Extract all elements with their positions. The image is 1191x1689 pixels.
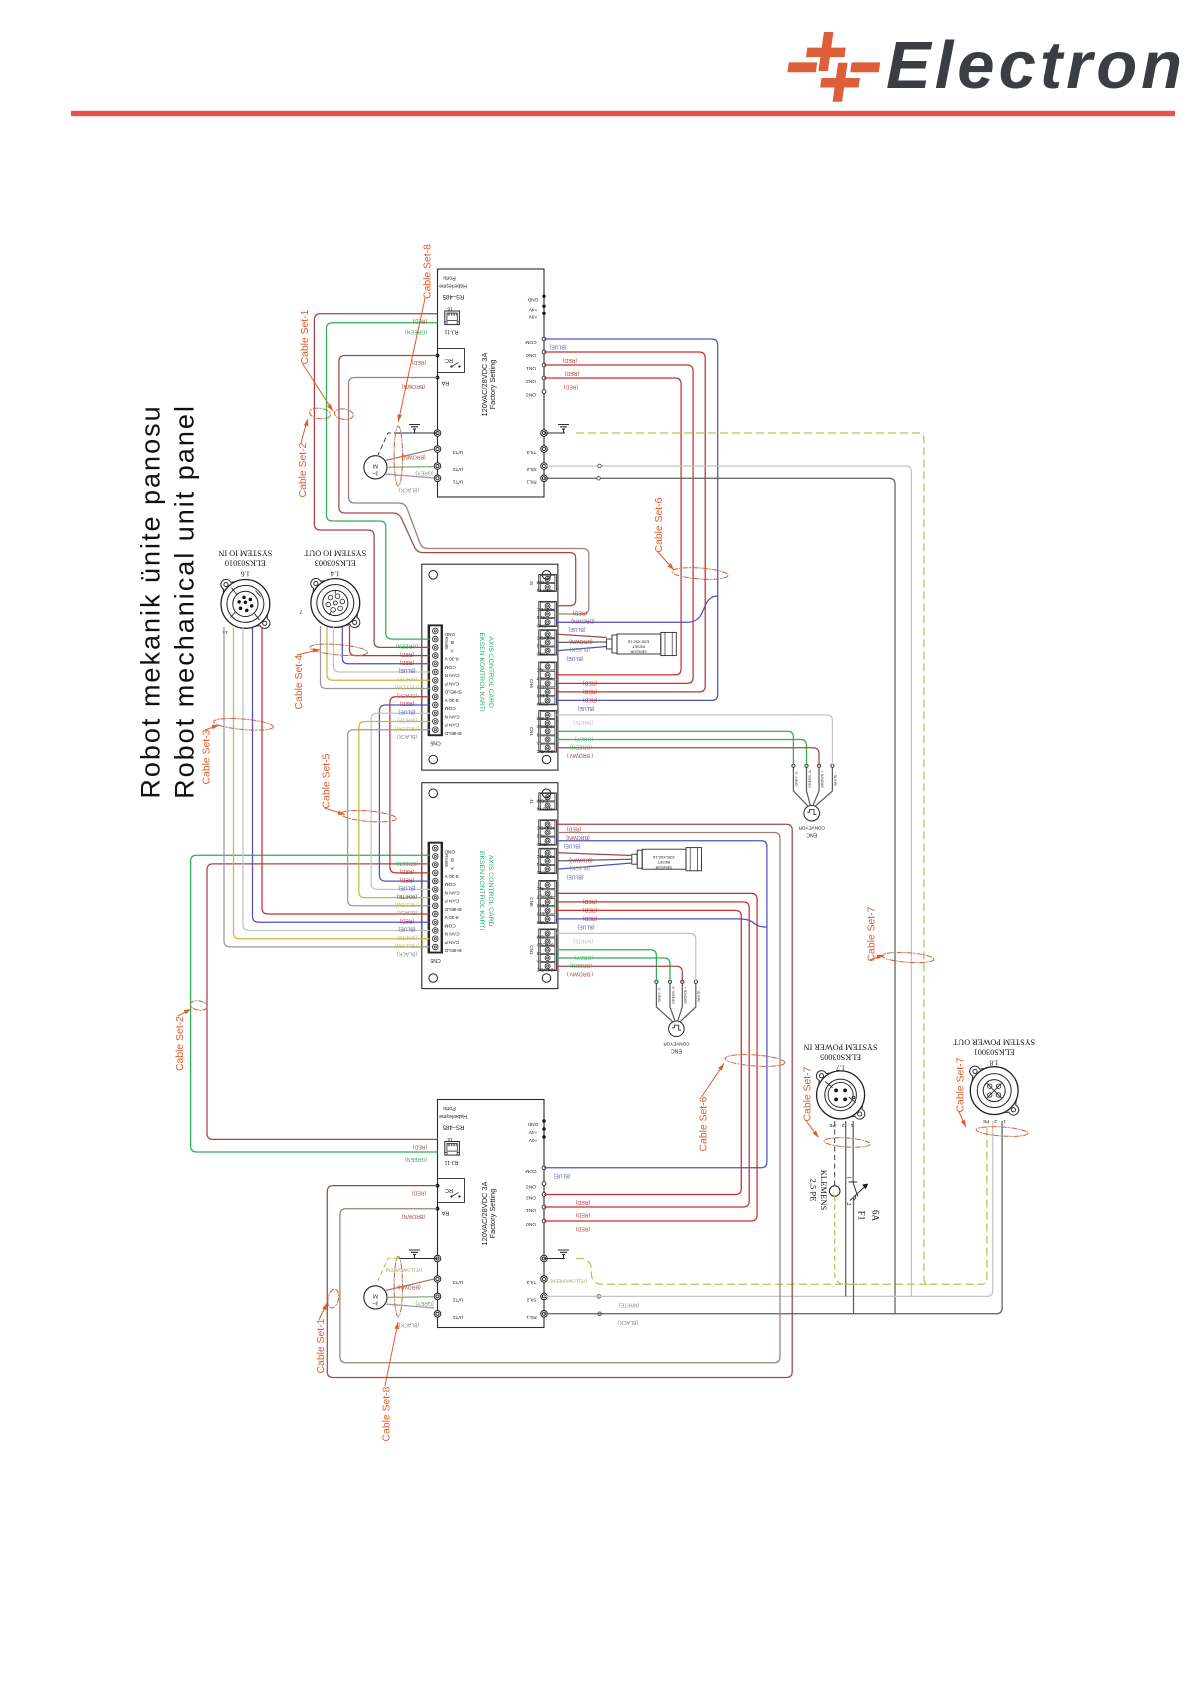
- svg-text:( BROWN ): ( BROWN ): [567, 752, 593, 758]
- U1 pins COM ON0..ON3: [542, 337, 546, 341]
- svg-text:Cable Set-3: Cable Set-3: [202, 729, 213, 784]
- svg-text:SHIELD: SHIELD: [536, 942, 554, 948]
- svg-text:1.8: 1.8: [989, 1059, 998, 1067]
- wire X2 black: [321, 626, 430, 689]
- svg-text:(WHITE): (WHITE): [397, 675, 417, 681]
- svg-text:CAN P: CAN P: [445, 722, 460, 728]
- svg-text:(BLACK): (BLACK): [396, 909, 417, 915]
- svg-text:(BROWN): (BROWN): [566, 834, 590, 840]
- U1 relay contact block RC/RA: [438, 349, 465, 373]
- svg-text:ELKS03005: ELKS03005: [820, 1053, 861, 1062]
- svg-text:Cable Set-6: Cable Set-6: [699, 1096, 710, 1151]
- company logo Electron (icon crosses): [783, 32, 884, 102]
- wire ON0 red (U2 to A2 RESET): [544, 893, 757, 1221]
- svg-text:Cable Set-8: Cable Set-8: [422, 244, 433, 299]
- earth net yellow-green dashed: [576, 433, 987, 1284]
- svg-text:COM: COM: [525, 339, 536, 345]
- wire X2 yellow: [327, 627, 430, 680]
- encoder converter ENC1: [804, 805, 820, 821]
- svg-text:Portu: Portu: [443, 275, 456, 281]
- motor M1 (M 3~): [364, 456, 387, 479]
- svg-text:3~: 3~: [372, 1299, 378, 1305]
- klemens 2,5 PE: [829, 1186, 840, 1197]
- svg-text:GREEN -A: GREEN -A: [671, 986, 675, 1004]
- svg-text:Cable Set-1: Cable Set-1: [300, 309, 311, 364]
- svg-text:(RED): (RED): [400, 659, 415, 665]
- svg-text:(RED): (RED): [412, 359, 427, 365]
- svg-text:RESET: RESET: [657, 860, 671, 865]
- svg-text:IN-2: IN-2: [536, 833, 545, 839]
- svg-text:8-30 V: 8-30 V: [444, 873, 459, 879]
- wire RJ11-B green (U1 to A1 CN5 B): [327, 323, 438, 639]
- svg-text:M: M: [373, 462, 378, 468]
- terminal block J1 of card A2: [539, 793, 557, 810]
- svg-text:CAN N: CAN N: [444, 713, 459, 719]
- svg-text:WHITE -: WHITE -: [697, 987, 701, 1002]
- svg-text:(RED): (RED): [563, 357, 578, 363]
- svg-text:İLERİ: İLERİ: [537, 692, 549, 699]
- svg-text:BROWN +: BROWN +: [820, 771, 824, 788]
- svg-text:(YELLOW): (YELLOW): [394, 725, 419, 731]
- svg-text:(WHITE): (WHITE): [397, 717, 417, 723]
- wire R/L1 grey (U1 down right side): [544, 478, 895, 1314]
- svg-text:(RED): (RED): [400, 651, 415, 657]
- svg-text:8-30 V: 8-30 V: [444, 697, 459, 703]
- svg-text:(RED): (RED): [573, 610, 588, 616]
- svg-text:(GREEN): (GREEN): [405, 1156, 427, 1162]
- svg-text:Portu: Portu: [443, 1105, 456, 1111]
- svg-text:GERİ: GERİ: [537, 902, 549, 909]
- wire COM blue (U2 to A2 GND): [544, 841, 767, 1168]
- axis control card A1 outline: [422, 564, 558, 770]
- wire RA brown (U1 to A1 IN-2): [349, 378, 589, 615]
- svg-text:ELKS03001: ELKS03001: [974, 1048, 1015, 1057]
- svg-text:U/T2: U/T2: [452, 1297, 463, 1303]
- svg-text:İLERİ: İLERİ: [537, 911, 549, 918]
- svg-text:8-30 V: 8-30 V: [444, 914, 459, 920]
- svg-text:(RED): (RED): [576, 1226, 591, 1232]
- svg-text:(BLUE): (BLUE): [549, 344, 566, 350]
- svg-text:U/T1: U/T1: [452, 1314, 463, 1320]
- U1 motor earth dashed wire: [378, 433, 399, 455]
- svg-text:GND: GND: [536, 841, 547, 847]
- U2 pins GND +4V +0V: [542, 1119, 545, 1122]
- junction circles on S/L2 R/L1: [598, 464, 602, 468]
- svg-text:(BLUE): (BLUE): [566, 655, 583, 661]
- wire X2 white: [334, 627, 430, 672]
- U1 phase pins T/L3 S/L2 R/L1: [541, 446, 548, 453]
- wire X1 black: [224, 627, 430, 947]
- svg-text:COM: COM: [537, 701, 548, 707]
- svg-text:(BLUE): (BLUE): [398, 885, 415, 891]
- ENC1 terminal BROWN: [813, 767, 819, 806]
- ENC2 terminal BROWN: [678, 983, 683, 1021]
- svg-text:(BLACK): (BLACK): [396, 950, 417, 956]
- svg-text:(BLUE): (BLUE): [577, 924, 594, 930]
- svg-text:( BROWN ): ( BROWN ): [567, 971, 593, 977]
- svg-text:COM: COM: [537, 797, 548, 803]
- svg-text:Electron: Electron: [886, 28, 1186, 103]
- bus phase-2 (U2 S/L2 to X4 pin2): [544, 1121, 993, 1296]
- svg-text:U/T3: U/T3: [452, 1279, 463, 1285]
- svg-text:(BLACK): (BLACK): [396, 692, 417, 698]
- ENC1 terminal GREEN: [807, 767, 811, 806]
- svg-text:COM: COM: [445, 881, 456, 887]
- svg-text:(RED): (RED): [583, 688, 598, 694]
- svg-text:Cable Set-8: Cable Set-8: [382, 1386, 393, 1441]
- svg-text:(BLACK): (BLACK): [396, 733, 417, 739]
- svg-text:U/T2: U/T2: [452, 466, 463, 472]
- wire ENC1 green: [556, 740, 806, 766]
- terminal block CN1 of card A1: [539, 711, 557, 753]
- svg-text:S/L2: S/L2: [526, 1297, 536, 1303]
- svg-text:B: B: [537, 950, 540, 956]
- wire X1 blue: [253, 628, 430, 922]
- motor M2 (M 3~): [364, 1286, 387, 1309]
- svg-text:B: B: [451, 639, 454, 645]
- svg-text:Factory Setting: Factory Setting: [488, 1189, 497, 1239]
- wire X1 white: [243, 628, 430, 931]
- wire ON2 red (U1 to A1 RESET): [544, 378, 681, 675]
- svg-text:CN6: CN6: [529, 897, 534, 907]
- svg-text:(BLUE): (BLUE): [398, 926, 415, 932]
- svg-text:(RED): (RED): [400, 868, 415, 874]
- wire fuse to bus phase-1: [853, 1197, 855, 1314]
- svg-text:U/T3: U/T3: [452, 449, 463, 455]
- svg-text:(BLUE): (BLUE): [566, 874, 583, 880]
- svg-text:COM: COM: [445, 664, 456, 670]
- svg-text:IN-1: IN-1: [536, 643, 545, 649]
- svg-text:(BROWN): (BROWN): [569, 856, 593, 862]
- svg-text:ON2: ON2: [526, 378, 536, 384]
- svg-text:(BLUE): (BLUE): [563, 843, 580, 849]
- svg-text:SHIELD: SHIELD: [444, 947, 462, 953]
- U1 earth pin left: [434, 430, 441, 437]
- svg-text:CAN P: CAN P: [445, 939, 460, 945]
- svg-text:(BLACK): (BLACK): [569, 865, 590, 871]
- wire ENC2 brown: [556, 966, 682, 981]
- proximity sensor B2 E2B-X5Z-18: [632, 854, 637, 864]
- svg-text:(RED): (RED): [583, 915, 598, 921]
- svg-text:(RED): (RED): [400, 876, 415, 882]
- svg-text:(RED): (RED): [583, 680, 598, 686]
- svg-text:+4V: +4V: [528, 1129, 537, 1135]
- svg-text:+24VDC: +24VDC: [536, 606, 555, 612]
- bus phase-1 (U2 R/L1 to X4 pin1): [544, 1121, 1002, 1314]
- svg-text:Robot mekanik ünite panosu: Robot mekanik ünite panosu: [136, 404, 166, 798]
- svg-text:SHIELD: SHIELD: [444, 689, 462, 695]
- svg-text:U/T1: U/T1: [452, 479, 463, 485]
- svg-text:(BLUE): (BLUE): [398, 708, 415, 714]
- svg-text:(BLACK): (BLACK): [617, 1319, 638, 1325]
- svg-text:(GREY): (GREY): [415, 1300, 433, 1306]
- wire daisy black: [348, 730, 430, 906]
- svg-text:RESET: RESET: [536, 894, 552, 900]
- wire ENC1 white: [556, 715, 832, 766]
- svg-text:J1: J1: [529, 580, 534, 585]
- wire RC red (U2 to A2 +24VDC): [327, 824, 792, 1377]
- svg-text:+24VDC: +24VDC: [536, 634, 555, 640]
- wire daisy red: [390, 697, 430, 873]
- U1 earth pin right: [541, 430, 548, 437]
- svg-text:EKSEN KONTROL KARTI: EKSEN KONTROL KARTI: [478, 632, 485, 711]
- svg-text:RESET: RESET: [631, 645, 645, 650]
- axis control card A2 outline: [422, 783, 558, 989]
- svg-text:(GREEN): (GREEN): [405, 329, 427, 335]
- svg-text:(BLACK): (BLACK): [398, 1322, 419, 1328]
- svg-text:RJ-11: RJ-11: [445, 1159, 459, 1165]
- svg-text:RA: RA: [441, 1210, 449, 1216]
- ENC2 terminal WHITE: [680, 983, 696, 1022]
- svg-text:(GREEN): (GREEN): [570, 744, 592, 750]
- ENC2 terminal GREY: [656, 983, 672, 1022]
- svg-text:J1: J1: [529, 799, 534, 804]
- terminal strip CN5 of card A2: [428, 842, 443, 954]
- terminal block IN-2 input block of card A2: [539, 820, 557, 845]
- svg-text:7: 7: [300, 608, 303, 614]
- wire RJ11-A red (U2 to A2 CN5 A): [207, 864, 438, 1140]
- svg-text:+24 VDC: +24 VDC: [536, 748, 556, 754]
- svg-text:RA: RA: [441, 380, 449, 386]
- U1 pins GND +4V +0V: [542, 295, 545, 298]
- svg-text:(BLACK): (BLACK): [398, 487, 419, 493]
- svg-text:ON1: ON1: [526, 1207, 536, 1213]
- motor M2 wires to U2: [385, 1279, 434, 1291]
- svg-text:2: 2: [994, 1118, 997, 1124]
- svg-text:2: 2: [841, 1122, 844, 1128]
- svg-text:COM: COM: [445, 922, 456, 928]
- svg-text:(BLUE): (BLUE): [568, 626, 585, 632]
- svg-text:E2B-X5Z-18: E2B-X5Z-18: [628, 640, 649, 645]
- svg-text:+24 VDC: +24 VDC: [536, 966, 556, 972]
- svg-text:RS–485: RS–485: [442, 293, 464, 299]
- ENC1 terminal WHITE: [815, 767, 832, 806]
- svg-text:3~: 3~: [372, 469, 378, 475]
- svg-text:(WHITE): (WHITE): [573, 938, 593, 944]
- terminal block J1 of card A1: [539, 574, 557, 591]
- svg-text:Cable Set-7: Cable Set-7: [803, 1066, 814, 1121]
- svg-text:GND: GND: [536, 622, 547, 628]
- svg-text:ON0: ON0: [526, 352, 536, 358]
- wire RJ11-A red (U1 to A1 CN5 A): [314, 314, 437, 648]
- ENC2 terminal GREEN: [670, 983, 675, 1021]
- svg-text:GREY -S: GREY -S: [658, 987, 662, 1002]
- svg-text:COM: COM: [537, 579, 548, 585]
- wire ON1 red (U1 to A1 GERI): [544, 365, 693, 683]
- terminal strip CN5 of card A1: [428, 624, 443, 736]
- wire ENC2 white: [556, 933, 695, 981]
- svg-text:SHIELD: SHIELD: [536, 723, 554, 729]
- svg-text:IN-2: IN-2: [536, 614, 545, 620]
- power supply module U2 (120VAC/28VDC 3A) outline: [438, 1100, 545, 1328]
- svg-text:(RED): (RED): [576, 1212, 591, 1218]
- svg-text:Robot mechanical unit panel: Robot mechanical unit panel: [170, 404, 200, 799]
- svg-text:NC: NC: [536, 667, 543, 673]
- card A2 mounting holes: [429, 789, 438, 798]
- svg-text:T/L3: T/L3: [526, 449, 536, 455]
- svg-text:Cable Set-7: Cable Set-7: [867, 906, 878, 961]
- svg-text:CAN N: CAN N: [444, 672, 459, 678]
- svg-text:6A: 6A: [871, 1210, 881, 1222]
- svg-text:R/L1: R/L1: [526, 479, 536, 485]
- svg-text:1.6: 1.6: [241, 570, 250, 578]
- svg-text:(WHITE): (WHITE): [619, 1302, 639, 1308]
- svg-text:ON3: ON3: [526, 1184, 536, 1190]
- svg-text:RJ-11: RJ-11: [445, 329, 459, 335]
- svg-text:+4V: +4V: [528, 306, 537, 312]
- wire S/L2 grey (U1 down right side): [544, 466, 911, 1296]
- svg-text:(YELLOW/GREEN): (YELLOW/GREEN): [550, 1279, 587, 1284]
- svg-text:(GREEN): (GREEN): [570, 962, 592, 968]
- svg-text:Cable Set-2: Cable Set-2: [175, 1016, 186, 1071]
- svg-text:RESET: RESET: [536, 675, 552, 681]
- svg-text:RC: RC: [445, 357, 453, 363]
- svg-text:GND: GND: [536, 651, 547, 657]
- svg-text:Factory Setting: Factory Setting: [488, 360, 497, 410]
- svg-text:(YELLOW): (YELLOW): [394, 942, 419, 948]
- svg-text:+0V: +0V: [528, 1137, 537, 1143]
- svg-text:CN1: CN1: [529, 945, 534, 955]
- svg-text:(BROWN): (BROWN): [402, 1213, 426, 1219]
- terminal block CN6 of card A2: [539, 881, 557, 924]
- svg-text:(RED): (RED): [564, 384, 579, 390]
- wire X3 pin2 drop: [845, 1121, 847, 1296]
- U2 motor pins U/T3 U/T2 U/T1: [434, 1276, 441, 1283]
- svg-text:COM: COM: [445, 705, 456, 711]
- svg-text:(WHITE): (WHITE): [397, 893, 417, 899]
- svg-text:RS485: RS485: [444, 854, 449, 867]
- svg-text:(GREEN): (GREEN): [396, 860, 418, 866]
- svg-text:ENC: ENC: [671, 1047, 682, 1053]
- svg-text:CAN N: CAN N: [444, 931, 459, 937]
- svg-text:F1: F1: [857, 1211, 867, 1221]
- svg-text:(RED): (RED): [400, 917, 415, 923]
- wire COM blue (U1 to A1 CN6 COM): [544, 339, 718, 700]
- svg-text:1.4: 1.4: [330, 570, 339, 578]
- svg-text:CAN N: CAN N: [444, 889, 459, 895]
- terminal block IN-2 input block of card A1: [539, 601, 557, 626]
- U2 earth pin right: [541, 1255, 548, 1262]
- svg-text:BROWN +: BROWN +: [684, 987, 688, 1004]
- U2 phase pins T/L3 S/L2 R/L1: [541, 1276, 548, 1283]
- svg-text:R/L1: R/L1: [526, 1314, 536, 1320]
- svg-text:(YELLOW): (YELLOW): [394, 901, 419, 907]
- svg-text:WHITE -: WHITE -: [834, 771, 838, 786]
- svg-text:ON3: ON3: [526, 392, 536, 398]
- svg-text:(YELLOW): (YELLOW): [394, 684, 419, 690]
- svg-text:SYSTEM IO OUT: SYSTEM IO OUT: [304, 549, 366, 558]
- svg-text:IN-1: IN-1: [536, 861, 545, 867]
- svg-text:CONVEYOR: CONVEYOR: [798, 826, 825, 831]
- svg-text:(RED): (RED): [412, 1190, 427, 1196]
- svg-text:ON2: ON2: [526, 1195, 536, 1201]
- header rule: [71, 111, 1175, 116]
- wire blue branch to A1 GND: [556, 596, 717, 622]
- wire RJ11-B green (U2 to A2 CN5 B): [191, 855, 438, 1152]
- svg-text:M: M: [373, 1292, 378, 1298]
- svg-text:1: 1: [1003, 1118, 1006, 1124]
- svg-text:Haberleşme: Haberleşme: [439, 283, 467, 289]
- svg-text:T/L3: T/L3: [526, 1279, 536, 1285]
- U2 motor earth dashed wire: [378, 1259, 399, 1281]
- svg-text:(RED): (RED): [583, 907, 598, 913]
- svg-text:(BLUE): (BLUE): [398, 667, 415, 673]
- svg-text:(RED): (RED): [567, 826, 582, 832]
- svg-text:NTC IN: NTC IN: [536, 806, 553, 812]
- svg-text:(WHITE): (WHITE): [397, 934, 417, 940]
- wire ON0 red (U1 to A1 ILERI): [544, 352, 705, 692]
- svg-text:CAN P: CAN P: [445, 898, 460, 904]
- wire daisy blue: [379, 705, 429, 881]
- svg-text:(RED): (RED): [413, 1144, 428, 1150]
- svg-text:CN5: CN5: [430, 740, 440, 746]
- svg-text:(RED): (RED): [400, 700, 415, 706]
- svg-text:GND: GND: [527, 296, 538, 302]
- wire X2 blue: [342, 627, 429, 664]
- encoder converter ENC2: [669, 1021, 685, 1037]
- svg-text:AXIS CONTROL CARD: AXIS CONTROL CARD: [487, 855, 494, 927]
- motor M1 wires to U1: [385, 449, 434, 461]
- svg-text:(RED): (RED): [565, 370, 580, 376]
- svg-text:ELKS03010: ELKS03010: [225, 559, 266, 568]
- terminal block CN1 of card A2: [539, 929, 557, 971]
- power supply module U1 (120VAC/28VDC 3A) outline: [438, 269, 545, 497]
- svg-text:(GREEN): (GREEN): [396, 643, 418, 649]
- sensor B2 leads: [558, 853, 632, 856]
- card A1 mounting holes: [429, 571, 438, 580]
- svg-text:GND: GND: [536, 869, 547, 875]
- svg-text:COM: COM: [537, 934, 548, 940]
- svg-text:(BLUE): (BLUE): [577, 705, 594, 711]
- terminal block CN6 of card A1: [539, 662, 557, 705]
- U2 pins COM ON3..ON0: [542, 1166, 546, 1170]
- wire ON1 red (U2 to A2 GERI): [544, 902, 749, 1207]
- terminal block IN-1 input block of card A2: [539, 848, 557, 873]
- svg-text:+24VDC: +24VDC: [536, 853, 555, 859]
- wire ENC1 grey-green: [556, 731, 793, 765]
- svg-text:(GREY): (GREY): [575, 954, 593, 960]
- svg-text:(YELLOW/GREEN): (YELLOW/GREEN): [385, 1268, 422, 1273]
- svg-text:CN6: CN6: [529, 679, 534, 689]
- svg-text:(GREY): (GREY): [415, 470, 433, 476]
- svg-text:B: B: [451, 857, 454, 863]
- svg-text:(GREY): (GREY): [575, 736, 593, 742]
- wire X3 pin1 to fuse: [852, 1121, 854, 1183]
- U2 relay contact block RC/RA: [438, 1179, 465, 1203]
- U1 motor pins U/T3 U/T2 U/T1: [434, 446, 441, 453]
- svg-text:EKSEN KONTROL KARTI: EKSEN KONTROL KARTI: [478, 851, 485, 930]
- wire daisy white: [371, 713, 430, 889]
- svg-text:SYSTEM IO IN: SYSTEM IO IN: [218, 549, 272, 558]
- PE dashed wire X3 to klemens: [834, 1121, 836, 1186]
- svg-text:ON0: ON0: [526, 1221, 536, 1227]
- svg-text:(BLUE): (BLUE): [553, 1172, 570, 1178]
- wire X1 yellow: [234, 628, 430, 939]
- wire ENC1 brown: [556, 748, 819, 766]
- sensor B1 leads: [558, 634, 607, 637]
- svg-text:RS485: RS485: [444, 637, 449, 650]
- svg-text:SHIELD: SHIELD: [444, 906, 462, 912]
- svg-text:COM: COM: [525, 1168, 536, 1174]
- svg-text:+24VDC: +24VDC: [536, 824, 555, 830]
- wire daisy yellow: [359, 722, 430, 898]
- svg-text:Cable Set-2: Cable Set-2: [298, 442, 309, 497]
- svg-text:Cable Set-4: Cable Set-4: [294, 654, 305, 709]
- svg-text:SENSOR: SENSOR: [630, 650, 647, 655]
- wire RC red (U1 to A1 +24VDC): [339, 356, 576, 606]
- svg-text:S/L2: S/L2: [526, 466, 536, 472]
- wire X1 red: [262, 627, 430, 914]
